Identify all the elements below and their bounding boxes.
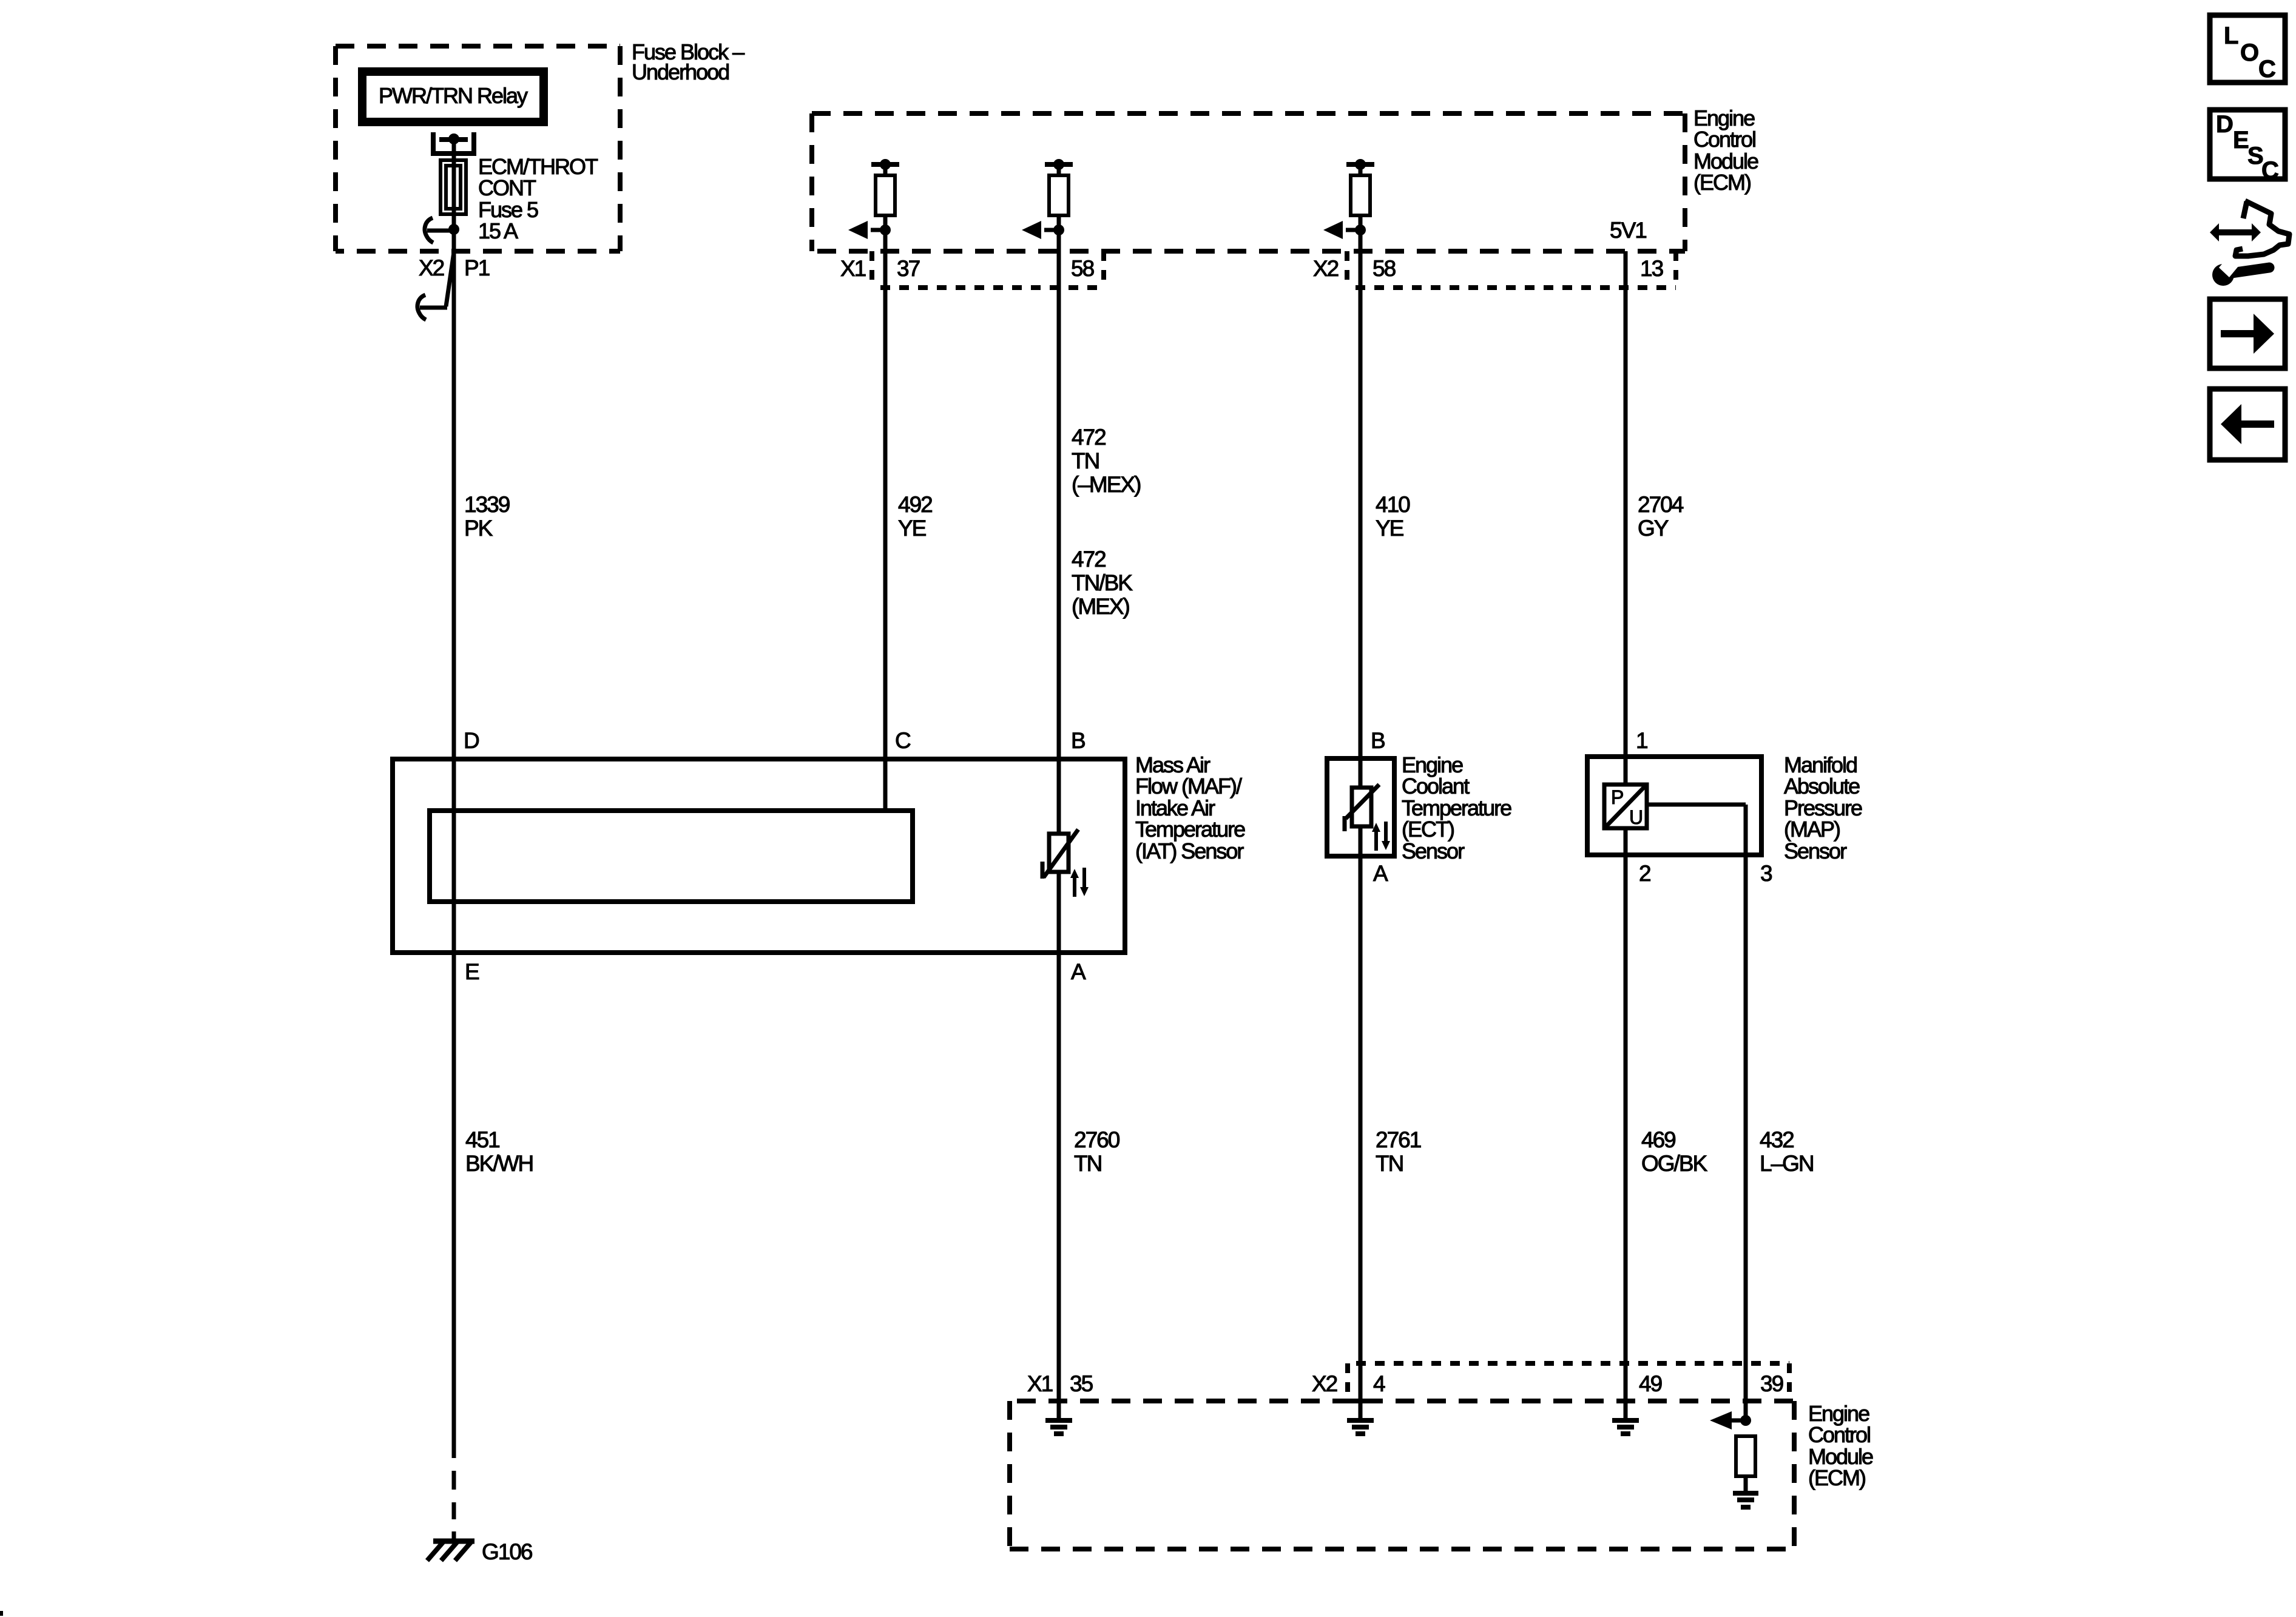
svg-text:1339: 1339 [464, 492, 510, 517]
svg-text:15 A: 15 A [478, 218, 518, 243]
svg-text:X2: X2 [1312, 1371, 1337, 1396]
svg-text:(ECT): (ECT) [1402, 817, 1454, 842]
svg-text:4: 4 [1373, 1371, 1385, 1396]
svg-text:Absolute: Absolute [1784, 774, 1860, 798]
svg-text:OG/BK: OG/BK [1641, 1151, 1708, 1176]
svg-text:B: B [1071, 728, 1085, 753]
svg-text:Control: Control [1808, 1422, 1870, 1447]
svg-text:(IAT) Sensor: (IAT) Sensor [1135, 839, 1244, 863]
svg-text:(ECM): (ECM) [1808, 1465, 1865, 1490]
svg-text:Sensor: Sensor [1784, 839, 1847, 863]
svg-text:A: A [1071, 959, 1086, 984]
svg-text:X1: X1 [840, 256, 866, 281]
svg-text:CONT: CONT [478, 175, 536, 200]
svg-text:2760: 2760 [1074, 1127, 1120, 1152]
svg-text:469: 469 [1641, 1127, 1675, 1152]
svg-text:2761: 2761 [1376, 1127, 1421, 1152]
svg-text:L: L [2224, 22, 2238, 49]
svg-text:C: C [2261, 157, 2279, 184]
svg-text:432: 432 [1760, 1127, 1794, 1152]
svg-text:X1: X1 [1027, 1371, 1053, 1396]
svg-text:(–MEX): (–MEX) [1072, 472, 1141, 497]
svg-text:49: 49 [1639, 1371, 1662, 1396]
svg-text:Flow (MAF)/: Flow (MAF)/ [1135, 774, 1242, 798]
svg-text:(MEX): (MEX) [1072, 594, 1130, 619]
svg-text:472: 472 [1072, 425, 1106, 450]
svg-text:Temperature: Temperature [1135, 817, 1245, 842]
svg-text:(MAP): (MAP) [1784, 817, 1840, 842]
svg-text:D: D [2216, 111, 2234, 138]
svg-text:A: A [1373, 861, 1388, 886]
svg-text:P1: P1 [464, 255, 490, 280]
svg-text:37: 37 [897, 256, 920, 281]
svg-text:X2: X2 [1313, 256, 1339, 281]
svg-text:TN: TN [1074, 1151, 1101, 1176]
svg-text:X2: X2 [419, 255, 444, 280]
svg-text:410: 410 [1376, 492, 1410, 517]
svg-text:E: E [465, 959, 479, 984]
svg-text:Coolant: Coolant [1402, 774, 1470, 798]
svg-text:Underhood: Underhood [632, 59, 729, 84]
svg-text:(ECM): (ECM) [1693, 170, 1751, 195]
svg-text:451: 451 [465, 1127, 499, 1152]
svg-text:2: 2 [1639, 861, 1650, 886]
svg-text:G106: G106 [482, 1539, 532, 1564]
svg-text:2704: 2704 [1638, 492, 1684, 517]
svg-text:3: 3 [1760, 861, 1772, 886]
svg-text:1: 1 [1636, 728, 1647, 753]
svg-text:492: 492 [898, 492, 932, 517]
svg-text:BK/WH: BK/WH [465, 1151, 533, 1176]
svg-text:YE: YE [898, 516, 927, 541]
svg-text:TN/BK: TN/BK [1072, 570, 1133, 595]
svg-text:35: 35 [1070, 1371, 1093, 1396]
svg-text:U: U [1629, 806, 1643, 828]
svg-text:C: C [2258, 56, 2276, 83]
svg-text:YE: YE [1376, 516, 1404, 541]
svg-text:O: O [2240, 39, 2259, 66]
svg-text:PWR/TRN Relay: PWR/TRN Relay [379, 83, 528, 108]
svg-text:TN: TN [1072, 448, 1099, 473]
svg-text:58: 58 [1373, 256, 1396, 281]
svg-text:13: 13 [1640, 256, 1663, 281]
svg-text:5V1: 5V1 [1610, 218, 1646, 243]
svg-text:GY: GY [1638, 516, 1669, 541]
svg-text:PK: PK [464, 516, 493, 541]
svg-text:B: B [1371, 728, 1385, 753]
svg-text:Control: Control [1693, 127, 1755, 152]
svg-text:P: P [1611, 786, 1623, 808]
svg-text:L–GN: L–GN [1760, 1151, 1814, 1176]
svg-text:472: 472 [1072, 547, 1106, 572]
svg-text:58: 58 [1071, 256, 1094, 281]
svg-text:39: 39 [1760, 1371, 1783, 1396]
svg-text:TN: TN [1376, 1151, 1403, 1176]
svg-text:D: D [464, 728, 479, 753]
svg-text:E: E [2233, 127, 2249, 154]
svg-text:Sensor: Sensor [1402, 839, 1465, 863]
svg-text:C: C [895, 728, 911, 753]
